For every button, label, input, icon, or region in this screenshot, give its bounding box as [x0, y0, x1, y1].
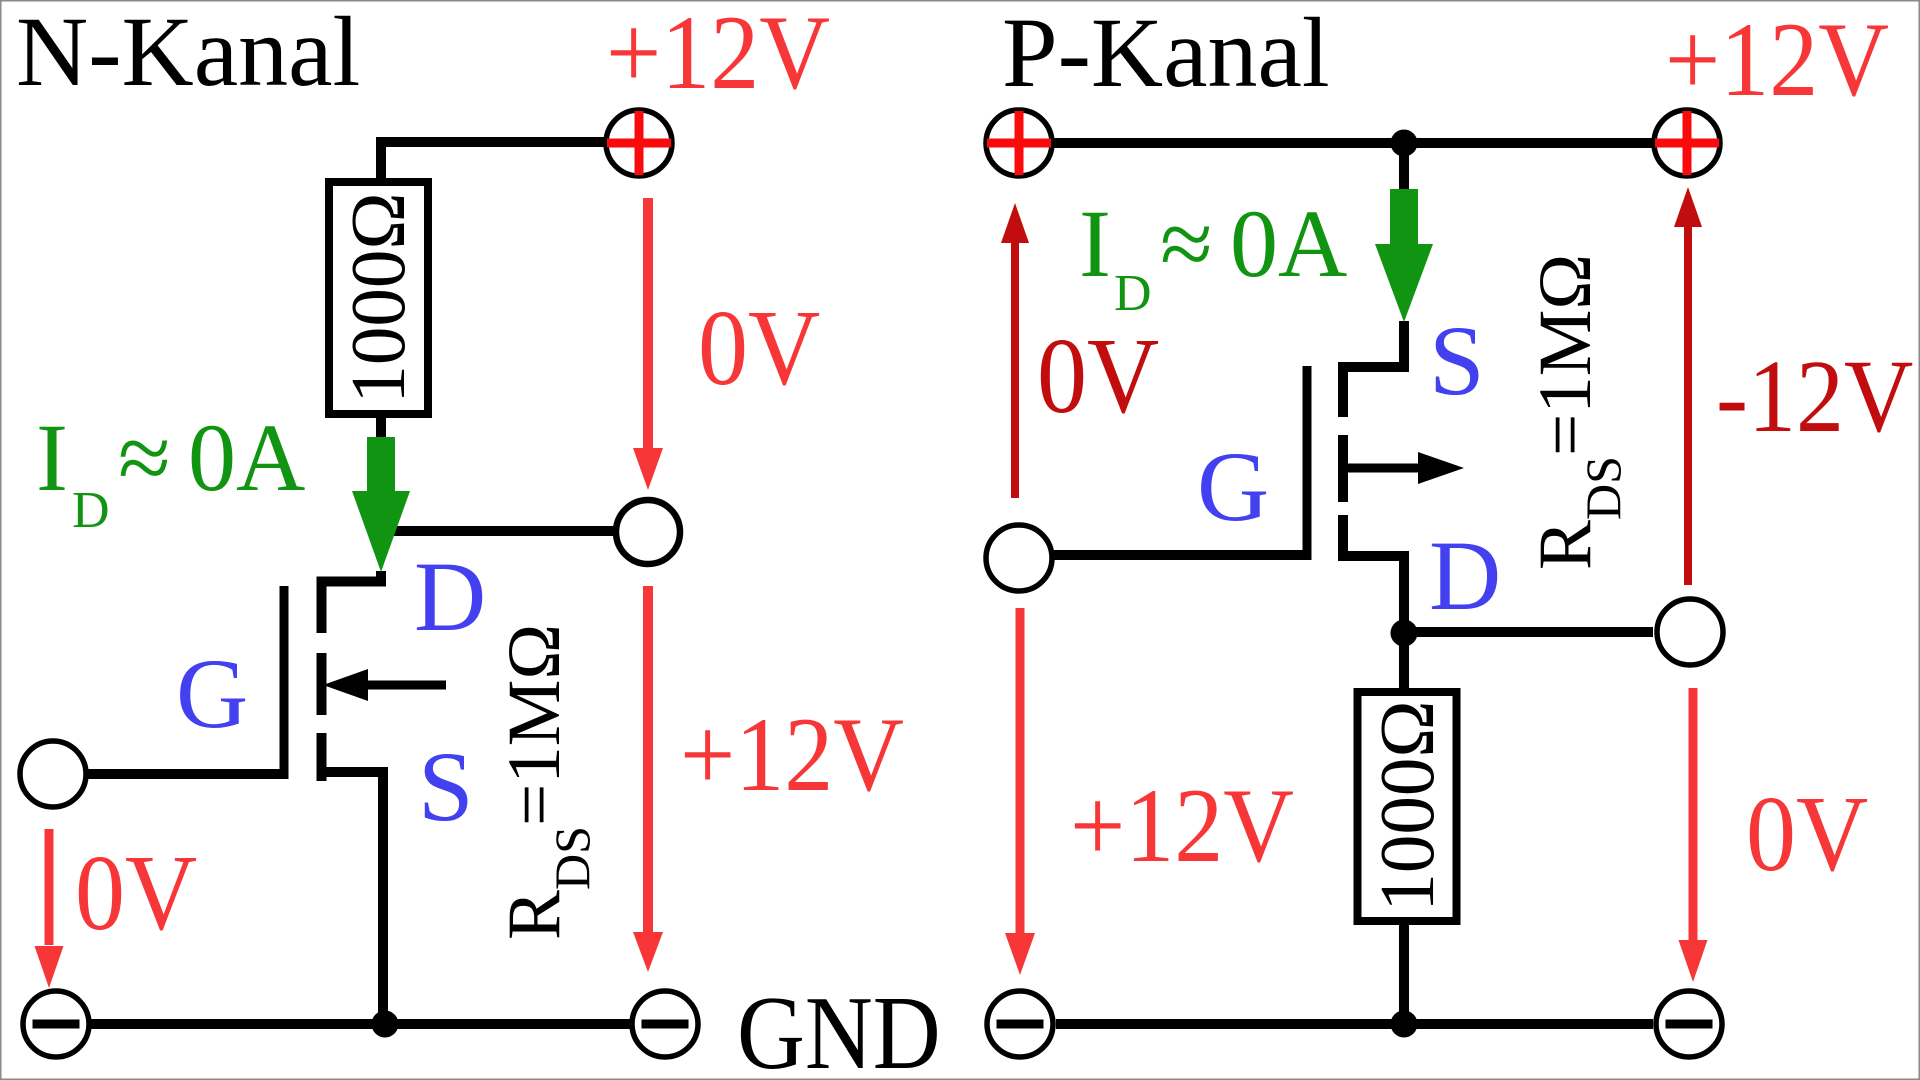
- -12V arrow, dark red, pointing up (P right): [1674, 187, 1702, 585]
- transistor Q2 drain lead (P): [1338, 556, 1404, 640]
- svg-text:+12V: +12V: [1665, 2, 1889, 119]
- svg-text:+12V: +12V: [606, 0, 830, 112]
- svg-text:G: G: [1197, 431, 1269, 542]
- resistor R2 1000 Ohm (P): [1358, 692, 1457, 921]
- junction resistor to ground (P): [1391, 1011, 1418, 1038]
- drain node terminal (N): [616, 500, 680, 564]
- +12V supply terminal (N): [606, 110, 672, 176]
- 0V arrow drain node to ground, bright red, pointing down (P right): [1679, 688, 1708, 982]
- 0V arrow at gate, dark red, pointing up (P): [1001, 203, 1029, 498]
- transistor Q2 gate line (P): [1303, 366, 1312, 560]
- svg-text:0V: 0V: [1746, 773, 1868, 893]
- svg-text:G: G: [176, 638, 248, 749]
- ground terminal right (P): [1656, 991, 1722, 1057]
- junction source to ground (N): [372, 1011, 399, 1038]
- svg-text:D: D: [414, 541, 486, 652]
- svg-text:S: S: [418, 731, 474, 842]
- gate terminal (P): [986, 525, 1052, 591]
- +12V supply terminal left (P): [986, 110, 1052, 176]
- svg-text:GND: GND: [737, 974, 941, 1080]
- +12V arrow drain node to ground (N): [633, 586, 663, 972]
- wire junction to resistor (P): [1399, 637, 1409, 692]
- transistor Q2 channel dashes (P): [1338, 365, 1348, 557]
- ground wire (N): [86, 1019, 632, 1029]
- wire drain to node terminal (N): [381, 526, 616, 536]
- svg-text:N-Kanal: N-Kanal: [16, 0, 360, 107]
- wire resistor to drain (N): [376, 414, 386, 586]
- svg-text:1000Ω: 1000Ω: [1364, 700, 1450, 911]
- ground wire (P): [1056, 1019, 1653, 1029]
- svg-text:-12V: -12V: [1716, 339, 1913, 454]
- svg-text:0V: 0V: [1037, 315, 1159, 435]
- wire drain junction to node terminal (P): [1404, 627, 1653, 637]
- transistor Q1 gate line (N): [280, 586, 289, 779]
- ground terminal right (N): [632, 991, 698, 1057]
- svg-text:+12V: +12V: [1070, 768, 1294, 885]
- ground terminal left (P): [987, 991, 1053, 1057]
- junction at drain (P): [1391, 620, 1418, 647]
- +12V arrow gate to ground, bright red, pointing down (P): [1005, 608, 1035, 975]
- drain node terminal (P): [1657, 599, 1723, 665]
- transistor Q1 body arrow (N): [323, 669, 446, 701]
- ground terminal left (N): [23, 991, 89, 1057]
- svg-text:S: S: [1429, 305, 1485, 416]
- wire junction to source (P): [1338, 143, 1404, 367]
- svg-text:0V: 0V: [75, 832, 197, 952]
- green current arrow I_D (P): [1375, 189, 1433, 322]
- transistor Q2 gate lead wire (P): [1054, 550, 1311, 560]
- svg-text:P-Kanal: P-Kanal: [1002, 0, 1330, 108]
- transistor Q1 drain lead (N): [317, 577, 387, 587]
- green current arrow I_D (N): [352, 437, 410, 572]
- svg-text:D: D: [1429, 520, 1501, 631]
- svg-text:0V: 0V: [698, 287, 820, 407]
- 0V arrow supply to drain node (N): [633, 198, 663, 490]
- transistor Q2 body arrow (P): [1346, 452, 1464, 484]
- transistor Q1 channel dashes (N): [317, 585, 327, 781]
- svg-text:1000Ω: 1000Ω: [335, 192, 421, 403]
- 0V arrow at gate (N): [35, 829, 64, 988]
- resistor R1 1000 Ohm (N): [329, 182, 428, 414]
- supply rail wire (P): [1054, 138, 1652, 148]
- svg-text:+12V: +12V: [680, 697, 904, 814]
- transistor Q1 source lead (N): [317, 772, 384, 1029]
- junction supply rail (P): [1391, 130, 1418, 157]
- wire +12V terminal to resistor (N): [381, 142, 606, 183]
- transistor Q1 gate lead wire (N): [88, 769, 286, 779]
- gate terminal (N): [20, 741, 86, 807]
- wire resistor to ground (P): [1399, 921, 1409, 1029]
- +12V supply terminal right (P): [1654, 110, 1720, 176]
